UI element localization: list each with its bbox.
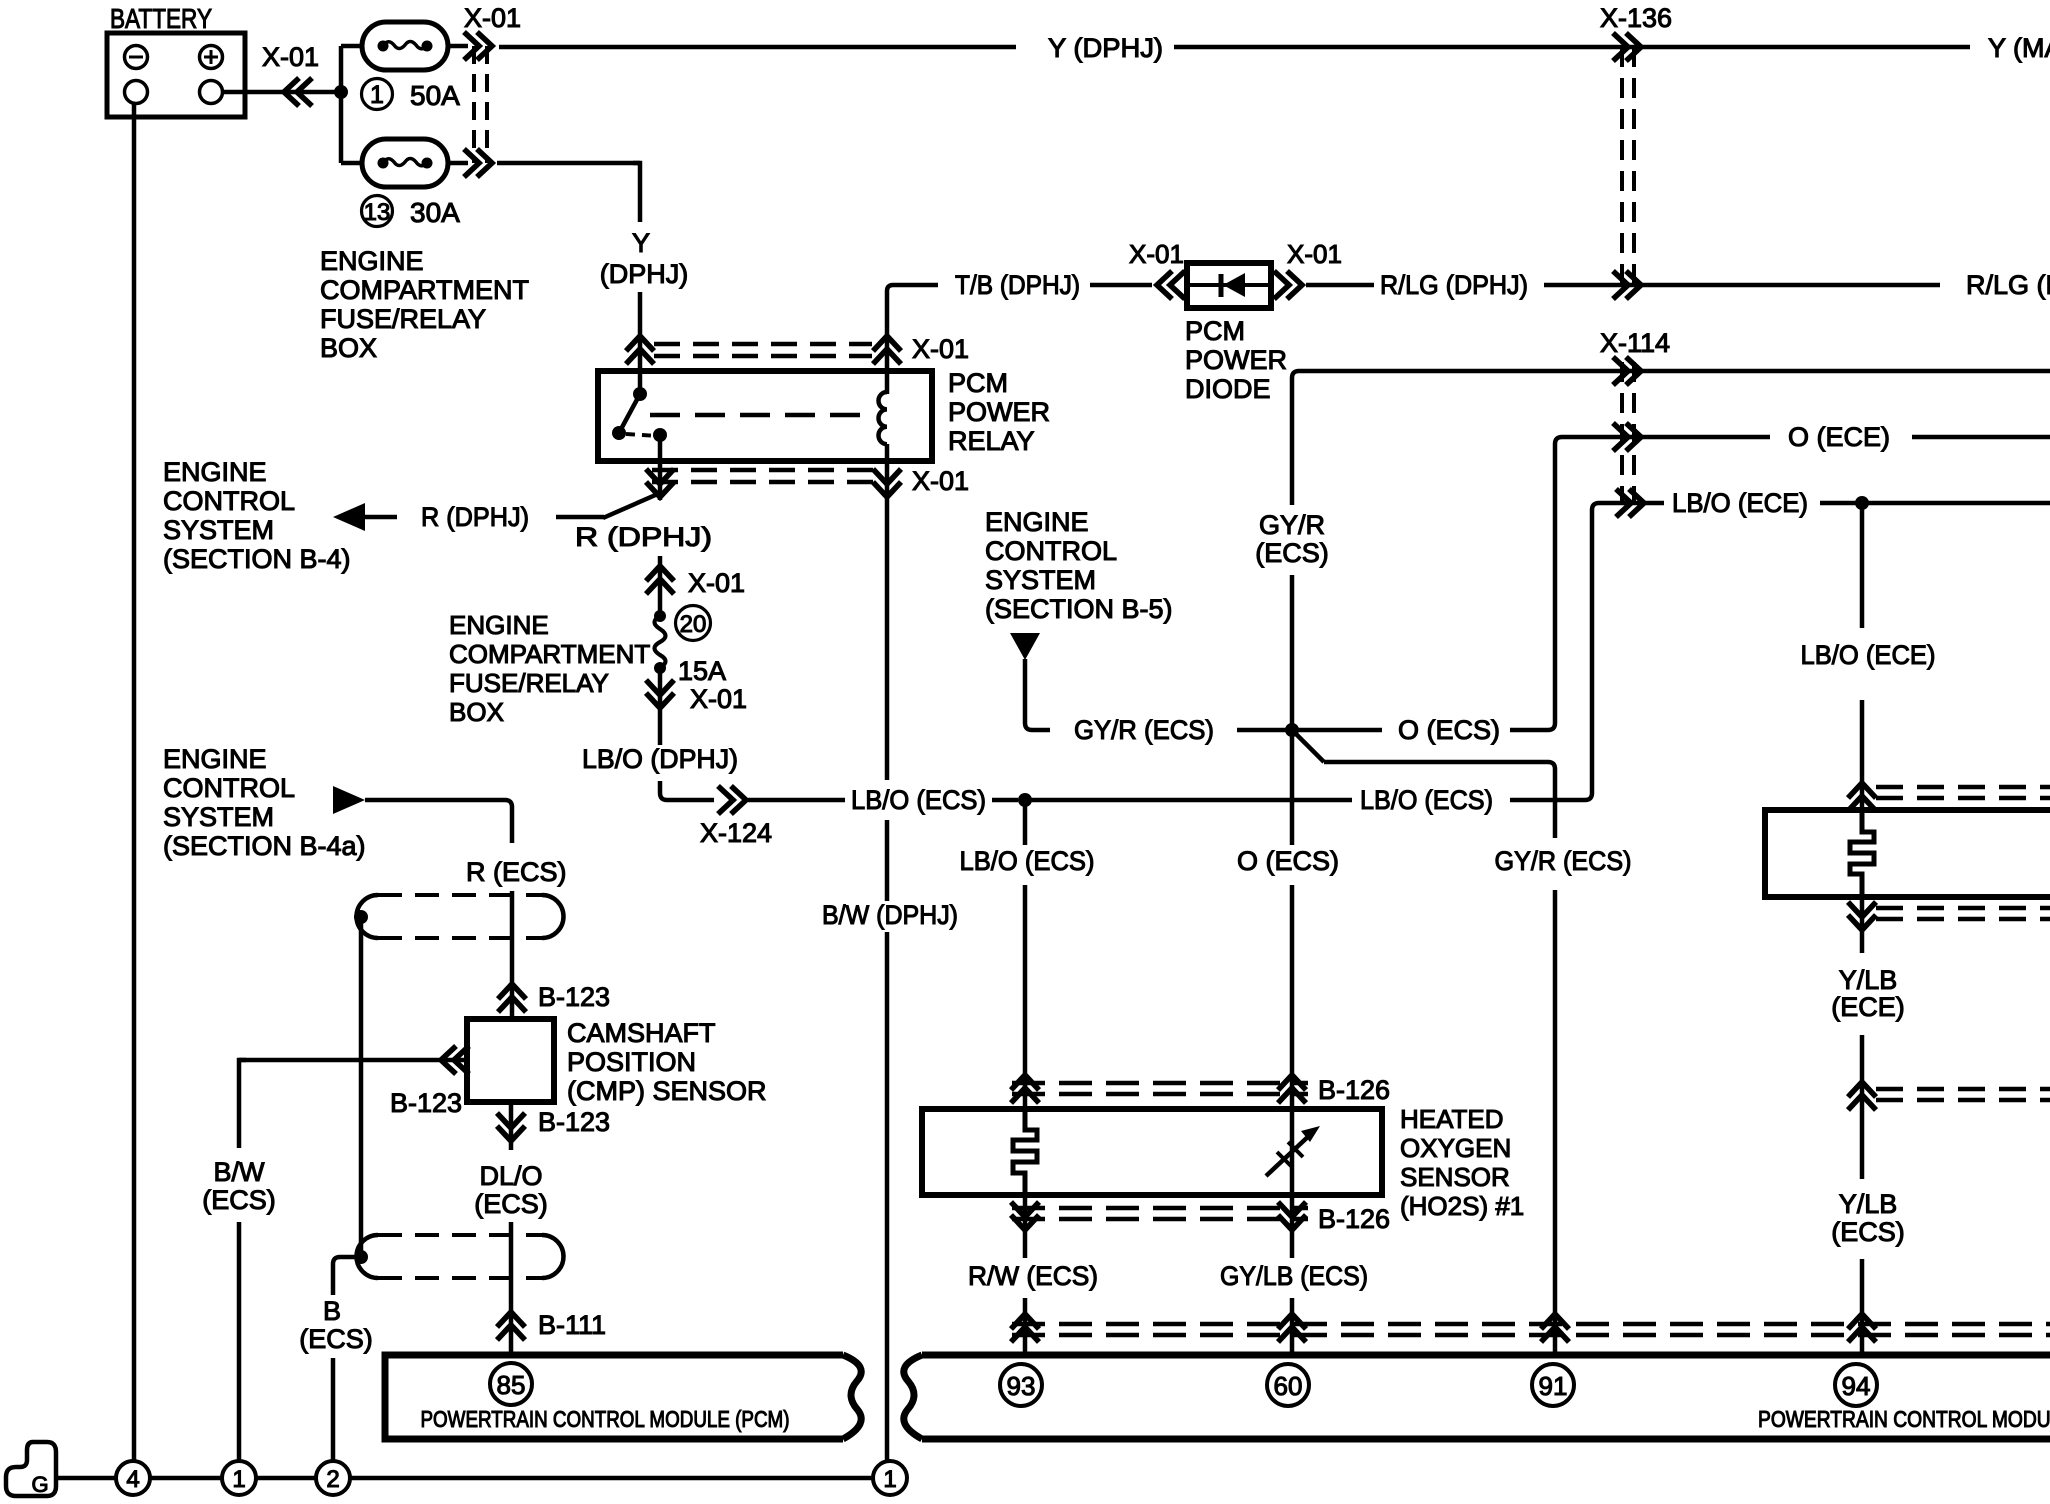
svg-text:X-124: X-124 — [700, 818, 772, 848]
svg-text:85: 85 — [497, 1370, 526, 1400]
svg-text:SYSTEM: SYSTEM — [163, 515, 274, 545]
svg-text:B/W: B/W — [214, 1157, 266, 1187]
svg-text:B-123: B-123 — [390, 1088, 462, 1118]
svg-text:B-111: B-111 — [538, 1310, 606, 1340]
svg-text:SYSTEM: SYSTEM — [985, 565, 1096, 595]
svg-text:(ECS): (ECS) — [1255, 538, 1329, 568]
svg-text:LB/O (ECS): LB/O (ECS) — [1360, 785, 1493, 815]
svg-text:(ECS): (ECS) — [474, 1189, 548, 1219]
svg-text:POWER: POWER — [948, 397, 1050, 427]
svg-text:B-126: B-126 — [1318, 1075, 1390, 1105]
svg-text:R (DPHJ): R (DPHJ) — [421, 502, 529, 532]
svg-text:60: 60 — [1274, 1371, 1303, 1401]
svg-text:LB/O (ECE): LB/O (ECE) — [1801, 640, 1936, 670]
svg-text:O (ECS): O (ECS) — [1237, 846, 1339, 876]
svg-text:Y/LB: Y/LB — [1839, 965, 1898, 995]
svg-text:POSITION: POSITION — [567, 1047, 696, 1077]
svg-text:BOX: BOX — [449, 697, 504, 727]
svg-text:1: 1 — [232, 1466, 245, 1493]
svg-text:Y (DPHJ): Y (DPHJ) — [1048, 33, 1163, 63]
svg-text:X-01: X-01 — [912, 466, 969, 496]
svg-text:(ECS): (ECS) — [299, 1324, 373, 1354]
svg-text:LB/O (DPHJ): LB/O (DPHJ) — [582, 744, 738, 774]
svg-text:(ECS): (ECS) — [1831, 1217, 1905, 1247]
svg-text:CONTROL: CONTROL — [985, 536, 1117, 566]
svg-text:GY/R (ECS): GY/R (ECS) — [1074, 715, 1214, 745]
svg-text:R (DPHJ): R (DPHJ) — [575, 522, 712, 552]
svg-text:PCM: PCM — [1185, 316, 1245, 346]
svg-text:POWER: POWER — [1185, 345, 1287, 375]
svg-text:RELAY: RELAY — [948, 426, 1035, 456]
svg-text:GY/R (ECS): GY/R (ECS) — [1495, 846, 1632, 876]
svg-text:GY/R: GY/R — [1259, 510, 1325, 540]
svg-text:(CMP) SENSOR: (CMP) SENSOR — [567, 1076, 767, 1106]
svg-text:X-01: X-01 — [912, 334, 969, 364]
svg-text:ENGINE: ENGINE — [163, 744, 267, 774]
svg-text:POWERTRAIN CONTROL MODULE (PCM: POWERTRAIN CONTROL MODULE (PCM) — [1758, 1406, 2050, 1432]
svg-text:X-01: X-01 — [464, 3, 521, 33]
svg-text:Y: Y — [632, 228, 650, 258]
svg-text:ENGINE: ENGINE — [985, 507, 1089, 537]
svg-text:SYSTEM: SYSTEM — [163, 802, 274, 832]
svg-text:(SECTION B-5): (SECTION B-5) — [985, 594, 1173, 624]
svg-text:CONTROL: CONTROL — [163, 486, 295, 516]
svg-text:O (ECE): O (ECE) — [1788, 422, 1890, 452]
svg-text:X-01: X-01 — [688, 568, 745, 598]
svg-text:BOX: BOX — [320, 333, 377, 363]
svg-text:PCM: PCM — [948, 368, 1008, 398]
svg-text:X-01: X-01 — [690, 684, 747, 714]
svg-text:1: 1 — [370, 81, 384, 109]
svg-text:B-123: B-123 — [538, 982, 610, 1012]
svg-text:LB/O (ECE): LB/O (ECE) — [1672, 488, 1808, 518]
svg-text:4: 4 — [126, 1466, 139, 1493]
svg-text:B-123: B-123 — [538, 1107, 610, 1137]
svg-text:LB/O (ECS): LB/O (ECS) — [960, 846, 1095, 876]
svg-text:G: G — [31, 1472, 48, 1497]
svg-text:ENGINE: ENGINE — [320, 246, 424, 276]
svg-text:B/W (DPHJ): B/W (DPHJ) — [822, 900, 958, 930]
svg-text:FUSE/RELAY: FUSE/RELAY — [320, 304, 486, 334]
svg-text:15A: 15A — [678, 656, 726, 686]
svg-text:R/W (ECS): R/W (ECS) — [968, 1261, 1098, 1291]
svg-text:FUSE/RELAY: FUSE/RELAY — [449, 668, 609, 698]
svg-text:X-01: X-01 — [262, 42, 319, 72]
svg-text:2: 2 — [326, 1466, 339, 1493]
svg-text:R/LG (DPHJ): R/LG (DPHJ) — [1380, 270, 1528, 300]
svg-text:DL/O: DL/O — [479, 1161, 542, 1191]
svg-text:91: 91 — [1539, 1371, 1568, 1401]
svg-text:GY/LB (ECS): GY/LB (ECS) — [1220, 1261, 1368, 1291]
svg-text:X-136: X-136 — [1600, 3, 1672, 33]
svg-text:1: 1 — [883, 1466, 896, 1493]
svg-text:50A: 50A — [410, 80, 460, 111]
svg-text:X-01: X-01 — [1129, 239, 1184, 269]
svg-text:94: 94 — [1842, 1371, 1871, 1401]
svg-text:COMPARTMENT: COMPARTMENT — [449, 639, 650, 669]
svg-text:B: B — [323, 1296, 341, 1326]
svg-text:20: 20 — [680, 611, 707, 638]
svg-text:DIODE: DIODE — [1185, 374, 1271, 404]
svg-text:(ECS): (ECS) — [202, 1185, 276, 1215]
svg-text:(HO2S) #1: (HO2S) #1 — [1400, 1191, 1524, 1221]
svg-text:ENGINE: ENGINE — [163, 457, 267, 487]
svg-text:X-114: X-114 — [1600, 328, 1670, 358]
svg-text:B-126: B-126 — [1318, 1204, 1390, 1234]
svg-text:COMPARTMENT: COMPARTMENT — [320, 275, 529, 305]
svg-text:HEATED: HEATED — [1400, 1104, 1504, 1134]
svg-text:93: 93 — [1007, 1371, 1036, 1401]
svg-text:R (ECS): R (ECS) — [466, 857, 567, 887]
svg-text:13: 13 — [364, 199, 391, 226]
svg-text:Y/LB: Y/LB — [1839, 1189, 1898, 1219]
svg-text:(ECE): (ECE) — [1831, 992, 1905, 1022]
svg-text:O (ECS): O (ECS) — [1398, 715, 1500, 745]
svg-text:BATTERY: BATTERY — [110, 3, 212, 34]
svg-text:(DPHJ): (DPHJ) — [600, 259, 689, 289]
svg-text:R/LG (MAIN): R/LG (MAIN) — [1966, 270, 2050, 300]
svg-text:Y (MAIN): Y (MAIN) — [1988, 33, 2050, 63]
svg-text:POWERTRAIN CONTROL MODULE (PCM: POWERTRAIN CONTROL MODULE (PCM) — [421, 1406, 790, 1432]
svg-text:(SECTION B-4a): (SECTION B-4a) — [163, 831, 366, 861]
svg-text:ENGINE: ENGINE — [449, 610, 549, 640]
svg-text:OXYGEN: OXYGEN — [1400, 1133, 1511, 1163]
svg-text:(SECTION B-4): (SECTION B-4) — [163, 544, 351, 574]
svg-text:30A: 30A — [410, 197, 460, 228]
svg-text:T/B (DPHJ): T/B (DPHJ) — [955, 270, 1080, 300]
svg-text:CAMSHAFT: CAMSHAFT — [567, 1018, 716, 1048]
svg-text:SENSOR: SENSOR — [1400, 1162, 1510, 1192]
svg-text:CONTROL: CONTROL — [163, 773, 295, 803]
svg-text:X-01: X-01 — [1287, 239, 1342, 269]
svg-text:LB/O (ECS): LB/O (ECS) — [851, 785, 986, 815]
